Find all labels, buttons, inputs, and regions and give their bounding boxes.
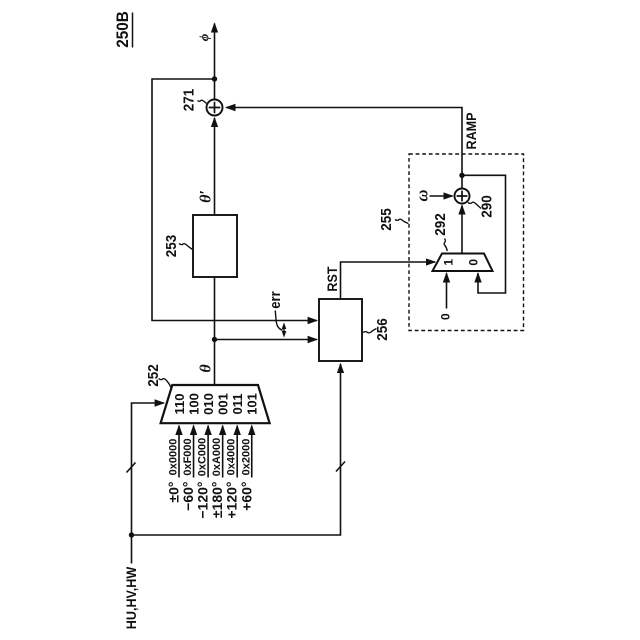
svg-text:err: err <box>268 291 284 309</box>
svg-text:HU,HV,HW: HU,HV,HW <box>123 566 139 629</box>
svg-text:290: 290 <box>479 195 496 218</box>
svg-text:252: 252 <box>146 364 163 387</box>
svg-text:RAMP: RAMP <box>464 112 480 149</box>
svg-text:001: 001 <box>215 393 230 415</box>
svg-text:271: 271 <box>181 89 198 112</box>
svg-text:1: 1 <box>442 259 456 266</box>
svg-text:ω: ω <box>412 189 431 201</box>
svg-text:253: 253 <box>163 235 180 258</box>
svg-text:RST: RST <box>324 266 340 291</box>
svg-text:0: 0 <box>467 259 481 266</box>
svg-text:+60°: +60° <box>238 482 254 511</box>
svg-text:ϕ: ϕ <box>196 33 211 41</box>
svg-text:0: 0 <box>438 313 452 320</box>
svg-text:θ′: θ′ <box>198 190 215 203</box>
svg-text:θ: θ <box>197 364 214 373</box>
svg-text:292: 292 <box>432 213 449 236</box>
svg-text:0xF000: 0xF000 <box>182 438 194 475</box>
svg-text:0xC000: 0xC000 <box>197 438 209 477</box>
svg-text:010: 010 <box>201 393 216 415</box>
svg-text:0x2000: 0x2000 <box>240 439 252 476</box>
svg-text:011: 011 <box>230 394 245 415</box>
svg-text:0xA000: 0xA000 <box>211 438 223 477</box>
svg-text:0x4000: 0x4000 <box>226 439 238 476</box>
svg-text:100: 100 <box>186 393 201 415</box>
svg-text:101: 101 <box>245 393 260 415</box>
svg-text:0x0000: 0x0000 <box>168 439 180 476</box>
svg-text:250B: 250B <box>113 11 132 48</box>
svg-text:255: 255 <box>378 208 395 231</box>
svg-text:256: 256 <box>374 318 391 341</box>
svg-text:110: 110 <box>172 394 187 415</box>
